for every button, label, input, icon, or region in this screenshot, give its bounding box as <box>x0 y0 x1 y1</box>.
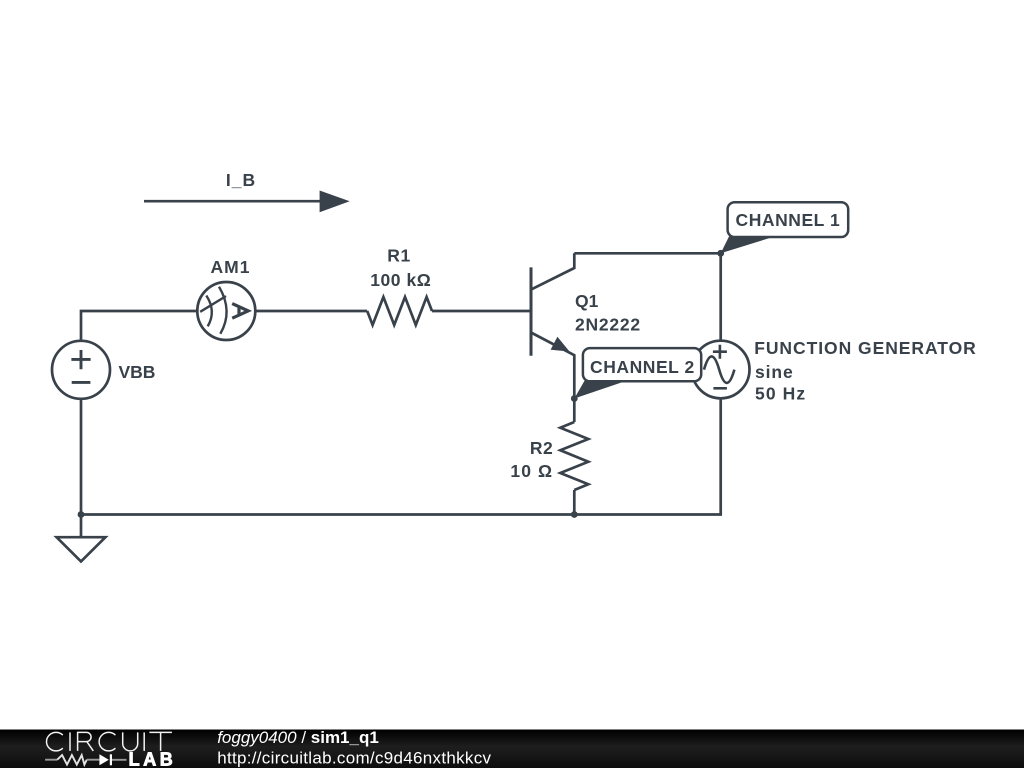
wire R1 to Q1 base <box>432 310 531 313</box>
voltage source VBB <box>52 341 110 399</box>
node dot channel2 (emitter) <box>571 395 578 402</box>
current label arrow I_B <box>144 191 350 213</box>
wire VBB bottom to ground rail <box>80 399 83 515</box>
svg-text:Q1: Q1 <box>575 291 599 311</box>
logo wire mid <box>87 759 100 761</box>
svg-text:I_B: I_B <box>226 170 256 190</box>
logo diode <box>99 754 126 765</box>
svg-text:2N2222: 2N2222 <box>575 315 641 335</box>
svg-text:100 kΩ: 100 kΩ <box>370 270 431 290</box>
svg-text:50 Hz: 50 Hz <box>755 384 806 404</box>
svg-text:10 Ω: 10 Ω <box>510 461 553 481</box>
ammeter AM1 <box>197 282 255 340</box>
svg-text:AM1: AM1 <box>211 257 251 277</box>
wire AM1 to R1 <box>255 310 367 313</box>
wire bottom rail <box>81 398 721 514</box>
node dot R2 bottom junction <box>571 511 578 518</box>
node dot channel1 (collector) <box>717 250 724 257</box>
svg-text:CHANNEL 1: CHANNEL 1 <box>736 210 841 230</box>
resistor R1 <box>367 297 432 325</box>
transistor Q1 <box>531 253 574 398</box>
function generator V1 <box>692 341 750 399</box>
svg-text:VBB: VBB <box>119 362 156 382</box>
svg-text:R2: R2 <box>530 438 553 458</box>
wire VBB top to AM1 <box>81 311 197 341</box>
svg-text:CHANNEL 2: CHANNEL 2 <box>590 357 695 377</box>
logo CIRCUIT lettering <box>47 732 172 751</box>
ground <box>57 537 106 561</box>
callout CHANNEL 2 <box>574 348 701 398</box>
svg-text:LAB: LAB <box>129 750 177 768</box>
svg-text:R1: R1 <box>387 246 410 266</box>
wire collector rail to channel1 node <box>574 252 720 255</box>
callout CHANNEL 1 <box>721 202 848 253</box>
wire channel1 node down to function generator <box>719 253 722 341</box>
logo wire left <box>45 759 57 761</box>
svg-text:sine: sine <box>755 362 794 382</box>
logo resistor zigzag <box>57 755 87 765</box>
wire ground stub <box>80 515 83 538</box>
node dot bottom-left junction <box>78 511 85 518</box>
svg-text:http://circuitlab.com/c9d46nxt: http://circuitlab.com/c9d46nxthkkcv <box>217 748 491 767</box>
svg-text:FUNCTION GENERATOR: FUNCTION GENERATOR <box>754 338 977 358</box>
svg-text:foggy0400 / sim1_q1: foggy0400 / sim1_q1 <box>217 728 379 747</box>
resistor R2 <box>560 399 588 515</box>
